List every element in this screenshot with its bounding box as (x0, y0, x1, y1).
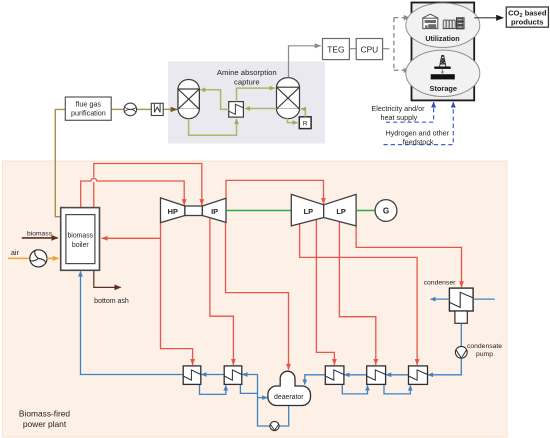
condenser (449, 288, 473, 323)
icon tank row (443, 20, 456, 29)
turbine LP1 (291, 194, 323, 226)
svg-text:biomass: biomass (67, 232, 93, 239)
wire CO2 gas: stripper top to TEG (289, 46, 321, 78)
svg-text:Biomass-fired: Biomass-fired (19, 409, 71, 419)
wire rich solvent: HX top to stripper (237, 88, 275, 102)
wire main steam: boiler to HP (81, 178, 185, 207)
wire dashed hydrogen feedstock (384, 102, 454, 145)
wire cooling water in (473, 298, 495, 300)
flue gas purification box (65, 97, 111, 120)
svg-text:air: air (11, 250, 19, 257)
svg-text:deaerator: deaerator (274, 394, 304, 401)
wire air to boiler (47, 257, 59, 259)
wire feedwater H1 to boiler (81, 271, 184, 374)
air fan (30, 250, 47, 267)
wire shaft IP-LP (226, 210, 291, 212)
wire hot reheat: boiler to IP (94, 164, 202, 208)
svg-text:IP: IP (211, 207, 218, 216)
svg-text:bottom ash: bottom ash (94, 298, 129, 305)
storage reservoir bar (431, 74, 455, 79)
wire CPU stub (383, 48, 390, 50)
storage ellipse (406, 50, 480, 96)
icon oil derrick (440, 55, 446, 67)
svg-text:pump: pump (476, 351, 493, 358)
svg-text:Hydrogen and other: Hydrogen and other (386, 128, 450, 137)
heater H3 (325, 366, 344, 385)
utilization-storage box (412, 3, 475, 101)
wire shaft LP-G (356, 210, 375, 212)
absorber column (178, 80, 199, 119)
wire air inlet (8, 257, 30, 259)
wire HP extraction to heater H1 (161, 238, 193, 365)
utilization ellipse (406, 3, 480, 47)
wire flue gas: filter to absorber (163, 108, 177, 110)
svg-text:biomass: biomass (27, 230, 53, 237)
wire crossover: IP to LP (226, 180, 324, 204)
wire flue gas: fan to filter (137, 108, 152, 110)
wire deaerator to feed pump to H2 (242, 375, 288, 427)
wire cold reheat: HP exhaust to boiler (102, 223, 161, 239)
hop mask (93, 177, 95, 182)
svg-text:Electricity and/or: Electricity and/or (371, 104, 425, 113)
heater H1 (183, 366, 201, 385)
svg-text:Amine absorption: Amine absorption (217, 68, 277, 77)
wire IP extraction to deaerator (226, 222, 289, 369)
svg-text:CPU: CPU (361, 44, 379, 54)
wire stripper bottom to reboiler (287, 118, 297, 123)
derrick base bar (434, 67, 450, 69)
wire dashed electricity supply (386, 102, 434, 122)
svg-text:purification: purification (71, 109, 106, 118)
wire condensate H4 to H3 (344, 374, 366, 376)
wire drain H2 to deaerator riser (240, 384, 257, 393)
heater H4 (367, 366, 386, 385)
wire biomass feed (22, 237, 58, 239)
wire LP extraction to heater H3 (316, 219, 334, 365)
svg-text:HP: HP (168, 207, 178, 216)
svg-text:Storage: Storage (430, 84, 458, 93)
wire reboiler to stripper (301, 109, 305, 117)
CPU box (356, 39, 382, 60)
plant background box (3, 161, 508, 437)
filter unit (151, 103, 163, 115)
wire dashed to Storage (394, 69, 410, 71)
svg-text:condenser: condenser (424, 280, 456, 287)
wire condensate H5 to H4 (386, 374, 408, 376)
capture background box (168, 62, 325, 144)
svg-text:capture: capture (234, 78, 260, 87)
icon drum rack (456, 17, 465, 29)
wire dashed CPU riser (393, 18, 395, 71)
turbine HP (161, 198, 185, 223)
turbine LP2 (324, 194, 356, 226)
stripper column (277, 78, 300, 119)
wire flue gas: purification to fan (111, 108, 124, 110)
svg-text:power plant: power plant (23, 419, 67, 429)
svg-text:Utilization: Utilization (425, 34, 459, 43)
heater H5 (409, 366, 428, 385)
icon warehouse (423, 14, 438, 28)
CO2 based products box (506, 7, 548, 27)
wire lean solvent: HX to absorber top (200, 90, 228, 110)
rich/lean heat exchanger (229, 102, 244, 118)
turbine IP (202, 198, 226, 222)
svg-text:LP: LP (336, 207, 346, 216)
TEG box (323, 39, 350, 60)
wire condensate pump to H5 (428, 358, 461, 375)
svg-text:boiler: boiler (72, 242, 90, 249)
wire to CO2 products (474, 17, 503, 19)
deaerator (268, 371, 311, 405)
wire dashed to Utilization (394, 17, 410, 19)
svg-text:R: R (303, 121, 308, 128)
feed pump (270, 421, 279, 430)
svg-text:flue gas: flue gas (76, 100, 102, 109)
svg-text:TEG: TEG (327, 44, 344, 54)
wire drain H4 to H5 (384, 385, 410, 394)
generator G (375, 200, 397, 222)
flue gas fan (124, 103, 137, 116)
wire LP extraction to heater H4 (339, 222, 375, 365)
wire condensate H3 to deaerator (305, 375, 326, 385)
svg-text:heat supply: heat supply (381, 113, 418, 122)
wire feedwater H2 to H1 (201, 374, 224, 376)
wire drain H1 to H2 (200, 385, 226, 395)
wire recirculation into deaerator (258, 397, 268, 399)
svg-text:condensate: condensate (467, 343, 502, 350)
wire bottom ash (94, 271, 121, 288)
svg-text:LP: LP (304, 207, 314, 216)
condensate pump (455, 346, 467, 358)
shaft coupling HP-IP (185, 206, 203, 216)
wire LP extraction to heater H5 (300, 224, 418, 365)
wire LP exhaust to condenser (356, 226, 461, 287)
seep arrow (441, 69, 443, 72)
wire drain H3 to H4 (342, 385, 367, 394)
wire cooling water out (430, 298, 449, 300)
reboiler R box (299, 117, 311, 129)
wire lean solvent: stripper to HX (245, 108, 276, 110)
svg-text:G: G (383, 207, 389, 216)
biomass boiler (61, 208, 100, 271)
wire hotwell to condensate pump (460, 323, 462, 346)
wire flue gas: boiler to purification (55, 109, 65, 216)
svg-text:products: products (511, 17, 544, 26)
wire rich solvent: absorber bottom to HX (189, 119, 237, 136)
svg-text:feedstock: feedstock (403, 137, 434, 146)
heater H2 (224, 366, 242, 385)
wire IP extraction to heater H2 (210, 218, 234, 365)
wire TEG to CPU (349, 48, 356, 50)
